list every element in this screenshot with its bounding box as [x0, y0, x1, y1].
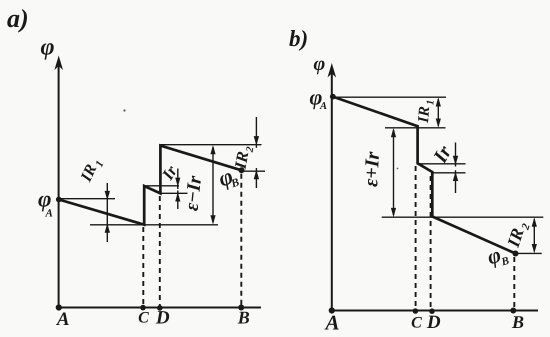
- top tick at D level (a): [160, 144, 261, 146]
- node A dot (a): [56, 304, 62, 310]
- dimension Ir lower arrow (b): [455, 170, 457, 193]
- x-axis (a): [57, 307, 261, 309]
- dashed line D (b): [430, 176, 432, 309]
- tick at phiB level (a): [242, 170, 266, 172]
- dashed line D (a): [159, 196, 161, 306]
- svg-text:φ: φ: [41, 35, 55, 61]
- long tick at D-bottom level (b): [382, 216, 544, 218]
- svg-text:1: 1: [425, 99, 436, 105]
- dimension IR1 lower arrow (a): [105, 223, 110, 232]
- y-axis (b): [331, 73, 333, 312]
- svg-text:D: D: [426, 312, 441, 333]
- dimension IR2 upper arrow (a): [255, 117, 257, 148]
- scan speck 2: [397, 168, 399, 170]
- phiB label (b), tilted: [484, 240, 510, 272]
- IR1 label (b): [415, 99, 437, 125]
- svg-text:a): a): [7, 4, 29, 33]
- x-axis (b): [330, 310, 538, 312]
- potential curve (b): A-C drop IR1, drop at C, Ir drop C-D, drop at D, D-B drop IR2: [333, 97, 516, 254]
- tick at post-C level (b): [418, 163, 466, 165]
- node D dot (a): [157, 305, 163, 311]
- Ir label (b): [429, 142, 456, 168]
- Ir label (a): [157, 162, 181, 184]
- tick at pre-D level (b): [432, 172, 465, 174]
- svg-text:A: A: [45, 208, 53, 220]
- svg-text:A: A: [319, 101, 327, 112]
- node B dot (a): [238, 305, 244, 311]
- dashed line B (a): [240, 174, 242, 306]
- node C dot (b): [413, 308, 419, 314]
- phiA dot (b): [330, 94, 336, 100]
- tick at C level (b): [385, 127, 446, 129]
- scan speck 1: [123, 109, 125, 111]
- phiB dot (a): [239, 167, 245, 173]
- svg-text:B: B: [499, 255, 510, 269]
- svg-text:B: B: [237, 308, 250, 328]
- dimension IR1 upper arrow (a): [106, 183, 108, 242]
- dimension IR1 double arrow (b): [437, 99, 439, 126]
- phiA dot (a): [56, 197, 62, 203]
- tick at phiB level (b): [516, 252, 542, 254]
- svg-text:ε−Ir: ε−Ir: [182, 175, 207, 212]
- dimension Ir upper arrow (b): [455, 143, 457, 167]
- dashed line C (a): [142, 227, 144, 306]
- IR1 label (a): [77, 155, 106, 186]
- svg-text:ε+Ir: ε+Ir: [360, 151, 384, 187]
- dimension IR2 lower arrow (a): [255, 168, 257, 188]
- potential curve (a): A-C drop IR1, jump at C, Ir drop C-D, jump at D, D-B drop IR2: [59, 146, 242, 225]
- dimension eps+Ir double arrow (b): [393, 130, 395, 215]
- dashed line C (b): [415, 166, 417, 309]
- node B dot (b): [510, 308, 516, 314]
- svg-text:IR: IR: [415, 106, 433, 125]
- dimension Ir lower arrow (a): [177, 191, 179, 210]
- svg-text:IR: IR: [230, 150, 252, 171]
- eps+Ir label (b): [360, 151, 384, 187]
- node D dot (b): [429, 308, 435, 314]
- bottom reference line at C level (a): [90, 224, 218, 226]
- IR2 label (a): [230, 143, 256, 171]
- svg-text:b): b): [289, 26, 308, 51]
- node A dot (b): [329, 307, 335, 313]
- dimension Ir upper arrow (a): [177, 169, 179, 190]
- tick at pre-D level (a): [160, 192, 187, 194]
- svg-text:φ: φ: [314, 53, 326, 75]
- tick at phiA level (a): [59, 198, 115, 200]
- y-axis (a): [58, 66, 60, 309]
- svg-text:A: A: [56, 309, 70, 330]
- node C dot (a): [140, 305, 146, 311]
- svg-text:C: C: [138, 310, 149, 327]
- dimension IR2 double arrow (b): [533, 219, 535, 252]
- eps-Ir label (a): [182, 175, 207, 212]
- svg-text:D: D: [155, 308, 170, 329]
- dashed line B (b): [513, 257, 515, 309]
- tick at post-C level (a): [144, 185, 179, 187]
- dimension eps-Ir double arrow (a): [212, 147, 214, 222]
- phiB dot (b): [513, 251, 519, 257]
- tick at phiA level (b): [333, 96, 446, 98]
- svg-text:B: B: [511, 312, 524, 332]
- phiB label (a), tilted: [215, 162, 241, 194]
- IR2 label (b): [503, 218, 533, 251]
- svg-text:A: A: [323, 311, 339, 335]
- svg-text:C: C: [411, 315, 422, 332]
